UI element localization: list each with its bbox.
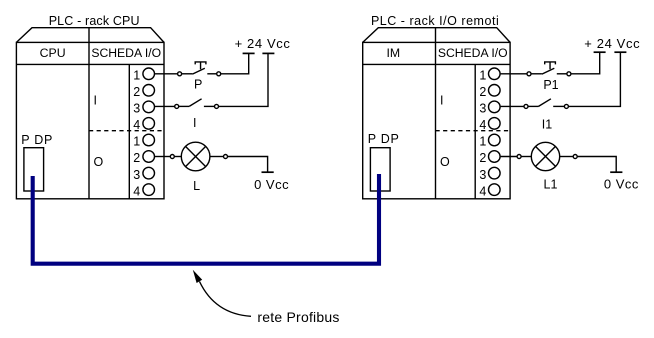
rack CPU outline [16,28,164,199]
node circle left of I [175,104,179,108]
PLC rack CPU title [49,14,140,28]
svg-text:PLC - rack CPU: PLC - rack CPU [49,14,140,28]
label 0 Vcc left [254,177,289,192]
wire terminal I1 to pushbutton P [155,73,178,75]
+24V rail terminal right bar 2 [614,51,626,53]
pushbutton P actuator [195,62,206,69]
svg-text:1: 1 [479,69,486,83]
+24V rail terminal right bar 1 [594,51,606,53]
wire terminal I1 to pushbutton P1 [501,73,527,75]
wire contact P1 to right node [557,73,567,75]
svg-text:PLC - rack I/O remoti: PLC - rack I/O remoti [371,14,499,28]
wire P1 node to +24V riser [571,53,600,74]
pushbutton P1 contact arm [542,68,554,74]
svg-text:4: 4 [133,184,140,198]
rack CPU terminal strip divider [128,64,130,198]
wire lamp L1 to right node [560,156,574,158]
wire P node to +24V riser [221,53,249,73]
svg-text:2: 2 [133,151,140,165]
terminals right rack output 1-4 [479,134,500,198]
wire node to switch I1 [528,105,539,107]
+24V rail terminal left bar 2 [262,52,274,54]
+24V rail terminal left bar 1 [243,52,255,54]
wire switch I to right node [204,105,215,107]
node circle right of I [215,104,219,108]
wire terminal O2 to lamp L [155,156,171,158]
svg-text:O: O [440,155,450,169]
svg-text:2: 2 [479,151,486,165]
node circle left of I1 [524,104,528,108]
svg-text:P DP: P DP [368,132,400,146]
svg-text:I: I [94,93,97,107]
label O section left [94,155,104,169]
label +24 Vcc left [235,36,291,51]
wire terminal I3 to switch I1 [501,105,524,107]
node circle left of L [170,155,174,159]
rack CPU column divider [88,28,90,199]
wire switch I1 to right node [553,105,564,107]
label P DP left [21,133,53,147]
node circle right of I1 [564,104,568,108]
switch I1 arm [539,99,551,107]
svg-text:CPU: CPU [40,46,66,60]
label I section left [94,93,97,107]
svg-text:+ 24 Vcc: + 24 Vcc [235,36,291,51]
wire node to switch I [179,105,190,107]
svg-text:0 Vcc: 0 Vcc [254,177,289,192]
svg-text:3: 3 [479,168,486,182]
svg-text:1: 1 [133,69,140,83]
svg-text:+ 24 Vcc: + 24 Vcc [584,36,640,51]
svg-text:4: 4 [479,184,486,198]
dashed divider I/O sections right rack [436,130,511,132]
profibus network bus [33,174,379,264]
node circle right of P [217,72,221,76]
svg-text:3: 3 [479,102,486,116]
svg-text:2: 2 [133,85,140,99]
svg-text:P DP: P DP [21,133,53,147]
lamp L [181,142,210,171]
label P1 [543,78,558,92]
wire I node to +24V riser 2 [219,53,269,106]
PLC rack IO remoti title [371,14,499,28]
label rete Profibus [257,309,339,325]
label IM [386,46,400,60]
svg-text:I: I [193,116,196,130]
svg-text:SCHEDA I/O: SCHEDA I/O [91,46,161,60]
wire node to contact P [182,73,193,75]
svg-text:L1: L1 [544,178,558,192]
svg-text:0 Vcc: 0 Vcc [604,177,639,192]
label CPU [40,46,66,60]
wire terminal O2 to lamp L1 [501,156,517,158]
label L1 [544,178,558,192]
profibus port box left [24,148,44,191]
dashed divider I/O sections left rack [89,130,164,132]
0V rail terminal left bar [262,171,274,173]
svg-text:2: 2 [479,85,486,99]
wire I1 node to +24V riser 2 [568,53,620,107]
wire contact P to right node [207,73,216,75]
svg-text:P1: P1 [543,78,558,92]
svg-text:IM: IM [386,46,400,60]
pushbutton P contact arm [192,68,204,74]
label I [193,116,196,130]
rete Profibus callout arrow [193,270,251,317]
terminals right rack input 1-4 [479,68,500,132]
wire node to lamp L1 [521,156,531,158]
label L [193,179,200,193]
label P DP right [368,132,400,146]
svg-text:1: 1 [133,135,140,149]
label O section right [440,155,450,169]
svg-text:P: P [194,77,202,91]
node circle left of L1 [517,155,521,159]
svg-text:4: 4 [133,118,140,132]
terminals left rack input 1-4 [133,68,154,132]
label P [194,77,202,91]
lamp L1 [531,142,559,170]
label I1 [542,117,552,131]
wire node to contact P1 [531,73,542,75]
svg-text:4: 4 [479,118,486,132]
wire lamp to right node [210,156,224,158]
svg-text:I1: I1 [542,117,552,131]
node circle right of L1 [573,155,577,159]
label 0 Vcc right [604,177,639,192]
wire terminal I3 to switch I [155,105,175,107]
label +24 Vcc right [584,36,640,51]
node circle left of P [178,72,182,76]
svg-text:3: 3 [133,102,140,116]
svg-text:I: I [440,93,443,107]
wire node to lamp [174,156,181,158]
svg-text:3: 3 [133,168,140,182]
terminals left rack output 1-4 [133,134,154,198]
node circle left of P1 [527,72,531,76]
node circle right of P1 [567,72,571,76]
svg-text:rete Profibus: rete Profibus [257,309,339,325]
0V rail terminal right bar [610,171,622,173]
svg-text:SCHEDA I/O: SCHEDA I/O [438,46,508,60]
svg-text:L: L [193,179,200,193]
rack IO remoti column divider [435,28,437,199]
profibus port box right [370,148,390,191]
rack IO remoti terminal strip divider [474,64,476,198]
svg-text:1: 1 [479,135,486,149]
rack IO remoti outline [363,28,510,199]
node circle right of L [224,155,228,159]
switch I arm [189,99,201,107]
label SCHEDA I/O [91,46,161,60]
wire L1 node to 0V drop [577,157,616,172]
label I section right [440,93,443,107]
svg-text:O: O [94,155,104,169]
pushbutton P1 actuator [545,62,556,69]
wire L node to 0V drop [228,157,268,172]
label SCHEDA I/O right [438,46,508,60]
